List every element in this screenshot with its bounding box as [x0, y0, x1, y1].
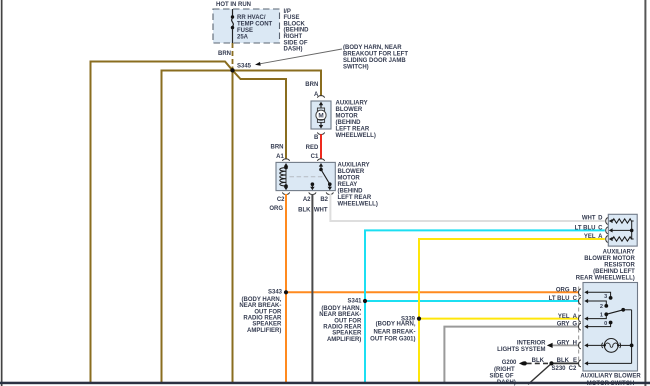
svg-text:BLOCK: BLOCK [284, 21, 306, 27]
label AUXILIARY BLOWER MOTOR RESISTOR (BEHIND LEFT REAR WHEELWELL) [576, 250, 636, 282]
relay coil [284, 166, 288, 170]
arrow to interior lights system [547, 343, 553, 348]
svg-text:NEAR BREAK-: NEAR BREAK- [239, 303, 281, 309]
svg-text:I/P: I/P [284, 9, 291, 15]
connector arc pin C2 [282, 192, 289, 194]
splice S345 [230, 68, 234, 72]
wire YEL resistor pin A down through S339 [419, 239, 605, 383]
dashed relay link [290, 176, 323, 178]
svg-text:SWITCH): SWITCH) [343, 65, 369, 71]
motor armature circle M [316, 110, 326, 120]
wire BRN from S345 left branch down left edge [91, 62, 233, 383]
connector arc pin A [606, 236, 609, 243]
svg-text:NEAR BREAK-: NEAR BREAK- [374, 329, 416, 335]
svg-text:A: A [573, 314, 578, 320]
svg-text:ORG: ORG [556, 287, 570, 293]
switch box [583, 283, 638, 372]
connector arc pin D [606, 218, 608, 225]
svg-text:RELAY: RELAY [338, 182, 358, 188]
annotation arrow to S345 [255, 49, 342, 66]
svg-text:(BEHIND: (BEHIND [336, 120, 362, 126]
svg-text:DASH): DASH) [284, 47, 303, 53]
svg-text:BLOWER: BLOWER [338, 169, 365, 175]
svg-text:D: D [598, 216, 603, 222]
svg-text:YEL: YEL [558, 314, 570, 320]
wire BLK dashed S230 to G200 [527, 362, 549, 364]
svg-text:1: 1 [600, 313, 603, 319]
resistor box [608, 214, 637, 246]
svg-text:BLOWER: BLOWER [336, 107, 363, 113]
svg-text:BRN: BRN [305, 82, 318, 88]
right bus [631, 221, 633, 239]
svg-text:GRY: GRY [557, 340, 570, 346]
label RR HVAC/TEMP CONT FUSE 25A [237, 15, 273, 41]
splice S343 [284, 290, 288, 294]
svg-text:(BEHIND LEFT: (BEHIND LEFT [593, 269, 635, 275]
svg-text:AUXILIARY BLOWER: AUXILIARY BLOWER [580, 374, 641, 380]
fuse F (RR HVAC/TEMP CONT 25A) [231, 9, 234, 43]
svg-text:SLIDING DOOR JAMB: SLIDING DOOR JAMB [343, 58, 406, 64]
connector arc pin A [317, 96, 324, 98]
svg-text:RED: RED [306, 145, 319, 151]
svg-text:LEFT REAR: LEFT REAR [338, 195, 372, 201]
svg-text:(RIGHT: (RIGHT [494, 367, 515, 373]
wire WHT relay B2 to resistor pin D [330, 194, 604, 221]
svg-text:GRY: GRY [557, 322, 570, 328]
label (BODY HARN, NEAR BREAK-OUT FOR RADIO REAR SPEAKER AMPLIFIER) [319, 306, 362, 343]
connector arc pin E [579, 360, 581, 367]
pin A arrow [609, 237, 613, 241]
pin A1 arrow [284, 163, 288, 167]
svg-text:S345: S345 [237, 63, 252, 69]
svg-text:YEL: YEL [584, 234, 596, 240]
motor box [311, 101, 331, 129]
pin A arrow and contact 1 [584, 317, 588, 321]
label I/P FUSE BLOCK (BEHIND RIGHT SIDE OF DASH) [284, 9, 310, 53]
svg-text:HOT IN RUN: HOT IN RUN [216, 2, 251, 8]
svg-text:(BODY HARN,: (BODY HARN, [321, 306, 361, 312]
svg-text:0: 0 [604, 321, 607, 327]
label AUXILIARY BLOWER MOTOR (BEHIND LEFT REAR WHEELWELL) [336, 101, 376, 140]
wire BLK diagonal from S230 to bottom [528, 363, 552, 384]
wire BRN from S345 to relay pin A1 [233, 70, 287, 159]
relay box [276, 162, 335, 190]
auxiliary blower motor M1 [311, 96, 331, 135]
wire GRY switch pin G to bottom [444, 327, 579, 383]
svg-text:TEMP CONT: TEMP CONT [237, 21, 273, 27]
pin C1 arrow and switch blade [319, 163, 323, 167]
wire ORG relay C2 down to S343 and bottom [285, 194, 287, 383]
pin G arrow and contact 0 [584, 325, 588, 329]
svg-text:(BODY HARN,: (BODY HARN, [242, 297, 282, 303]
svg-text:LT BLU: LT BLU [549, 296, 570, 302]
svg-text:BLK: BLK [298, 208, 311, 214]
ground G200 [519, 361, 527, 365]
svg-text:SIDE OF: SIDE OF [489, 374, 513, 380]
connector arc pin A1 [282, 159, 289, 161]
label (BODY HARN, NEAR BREAKOUT FOR LEFT SLIDING DOOR JAMB SWITCH) [343, 45, 408, 71]
svg-text:3: 3 [604, 294, 607, 300]
pin C arrow and contact 2 [584, 299, 588, 303]
svg-text:S343: S343 [268, 289, 283, 295]
auxiliary blower motor switch S1 [579, 283, 638, 372]
svg-text:AUXILIARY: AUXILIARY [603, 250, 635, 256]
svg-text:BLOWER MOTOR: BLOWER MOTOR [584, 256, 635, 262]
svg-text:OUT FOR G301): OUT FOR G301) [370, 337, 415, 343]
wire RED motor B to relay C1 [320, 134, 322, 159]
svg-text:S230: S230 [551, 366, 566, 372]
svg-text:WHT: WHT [314, 208, 328, 214]
svg-text:H: H [573, 340, 577, 346]
resistor element bottom [613, 237, 634, 241]
label G200 (RIGHT SIDE OF DASH) [489, 360, 517, 386]
pin B2 arrow [328, 187, 332, 190]
wire BRN from S345 through to auxiliary blower motor pin A and second left drop [162, 71, 322, 383]
svg-text:AUXILIARY: AUXILIARY [336, 101, 368, 107]
label (BODY HARN, NEAR BREAK-OUT FOR RADIO REAR SPEAKER AMPLIFIER) [239, 297, 282, 334]
pin E arrow [584, 361, 588, 365]
auxiliary blower motor resistor R1 [606, 214, 638, 246]
pin C arrow and line [609, 228, 613, 232]
svg-text:(BEHIND: (BEHIND [338, 189, 364, 195]
svg-text:BRN: BRN [218, 51, 231, 57]
pin A2 arrow [310, 187, 314, 190]
right bus [631, 310, 633, 364]
fuse block box (I/P fuse block) [213, 9, 280, 43]
svg-text:WHEELWELL): WHEELWELL) [336, 133, 376, 139]
wire LT BLU S341 to switch pin C [365, 300, 579, 302]
svg-text:MOTOR: MOTOR [338, 176, 361, 182]
svg-text:OUT FOR: OUT FOR [254, 309, 282, 315]
connector arc pin B2 [326, 192, 333, 194]
wire BLK S230 to switch pin E [552, 362, 580, 364]
svg-text:MOTOR: MOTOR [336, 114, 359, 120]
svg-text:RADIO REAR: RADIO REAR [243, 316, 282, 322]
svg-text:REAR WHEELWELL): REAR WHEELWELL) [576, 276, 635, 282]
label (BODY HARN, NEAR BREAK-OUT FOR G301) [370, 322, 416, 343]
connector arc pin C [606, 227, 609, 234]
wire YEL S339 to switch pin A [419, 318, 579, 320]
svg-text:NEAR BREAK-: NEAR BREAK- [319, 312, 361, 318]
svg-text:A: A [314, 92, 319, 98]
brush bottom [317, 120, 324, 123]
wire BRN dashed from fuse block to S345 [232, 43, 234, 67]
svg-text:A: A [598, 234, 603, 240]
svg-text:C: C [573, 296, 578, 302]
svg-text:LEFT REAR: LEFT REAR [336, 127, 370, 133]
svg-text:INTERIOR: INTERIOR [517, 340, 546, 346]
connector arc pin B [317, 132, 324, 134]
svg-text:B: B [314, 135, 319, 141]
svg-text:RR HVAC/: RR HVAC/ [237, 15, 266, 21]
svg-text:SIDE OF: SIDE OF [284, 40, 308, 46]
pin A arrow [319, 102, 323, 106]
pin B arrow and contact 3 [584, 290, 588, 294]
svg-text:AMPLIFIER): AMPLIFIER) [247, 328, 281, 334]
svg-text:LT BLU: LT BLU [575, 226, 596, 232]
svg-text:SPEAKER: SPEAKER [252, 322, 282, 328]
pin C2 arrow [284, 187, 288, 190]
svg-text:G200: G200 [502, 360, 517, 366]
splice S339 [417, 317, 421, 321]
svg-text:WHEELWELL): WHEELWELL) [338, 202, 378, 208]
svg-text:BRN: BRN [271, 145, 284, 151]
svg-text:SPEAKER: SPEAKER [332, 331, 362, 337]
svg-text:FUSE: FUSE [284, 15, 300, 21]
svg-text:B2: B2 [320, 197, 328, 203]
svg-text:BLK: BLK [557, 358, 570, 364]
svg-text:AUXILIARY: AUXILIARY [338, 163, 370, 169]
resistor element top [613, 219, 634, 223]
svg-text:LIGHTS SYSTEM: LIGHTS SYSTEM [497, 347, 545, 353]
svg-text:(BEHIND: (BEHIND [284, 28, 310, 34]
connector arc pin G [579, 323, 581, 330]
svg-text:RADIO REAR: RADIO REAR [323, 325, 362, 331]
svg-text:S341: S341 [347, 298, 362, 304]
svg-text:ORG: ORG [269, 206, 283, 212]
svg-text:RESISTOR: RESISTOR [604, 263, 635, 269]
pin H arrow and illumination lamp [584, 343, 588, 347]
splice S230 [549, 361, 553, 365]
wire BLK relay A2 down to bottom [311, 194, 313, 383]
pin B arrow [319, 125, 323, 129]
connector C2 dashed line at switch [578, 287, 580, 367]
svg-text:C2: C2 [277, 197, 285, 203]
pin A2 contact [311, 182, 315, 186]
connector arc pin C1 [317, 159, 324, 161]
svg-text:(BODY HARN,: (BODY HARN, [376, 322, 416, 328]
svg-text:BREAKOUT FOR LEFT: BREAKOUT FOR LEFT [343, 52, 408, 58]
wire LT BLU resistor pin C down through S341 [365, 230, 605, 382]
connector arc pin C [579, 298, 581, 305]
label AUXILIARY BLOWER MOTOR RELAY (BEHIND LEFT REAR WHEELWELL) [338, 163, 378, 208]
connector arc pin B [579, 289, 582, 296]
svg-text:M: M [318, 113, 323, 120]
svg-text:B: B [573, 287, 578, 293]
svg-text:25A: 25A [237, 34, 249, 40]
svg-text:G: G [572, 322, 577, 328]
splice S341 [363, 299, 367, 303]
svg-text:WHT: WHT [582, 216, 596, 222]
wire GRY interior lights to switch pin H [551, 344, 579, 346]
svg-text:E: E [573, 358, 577, 364]
connector arc pin H [579, 342, 582, 349]
svg-text:RIGHT: RIGHT [284, 34, 303, 40]
auxiliary blower motor relay K1 [276, 159, 335, 195]
svg-text:(BODY HARN, NEAR: (BODY HARN, NEAR [343, 45, 402, 51]
svg-text:C1: C1 [311, 154, 319, 160]
svg-text:C2: C2 [569, 366, 577, 372]
svg-text:OUT FOR: OUT FOR [334, 318, 362, 324]
svg-text:FUSE: FUSE [237, 28, 253, 34]
connector arc pin A [579, 315, 582, 322]
wire ORG S343 to switch pin B [286, 291, 579, 293]
brush top [317, 108, 324, 111]
svg-text:C: C [598, 226, 603, 232]
connector arc pin A2 [309, 192, 316, 194]
svg-text:AMPLIFIER): AMPLIFIER) [327, 337, 361, 343]
border frame [1, 0, 3, 386]
wire BRN from S345 straight down [232, 70, 234, 382]
svg-text:2: 2 [600, 304, 603, 310]
svg-text:BLK: BLK [532, 358, 545, 364]
svg-text:A2: A2 [303, 197, 311, 203]
switch blade [606, 310, 623, 315]
pin D arrow [609, 219, 613, 223]
